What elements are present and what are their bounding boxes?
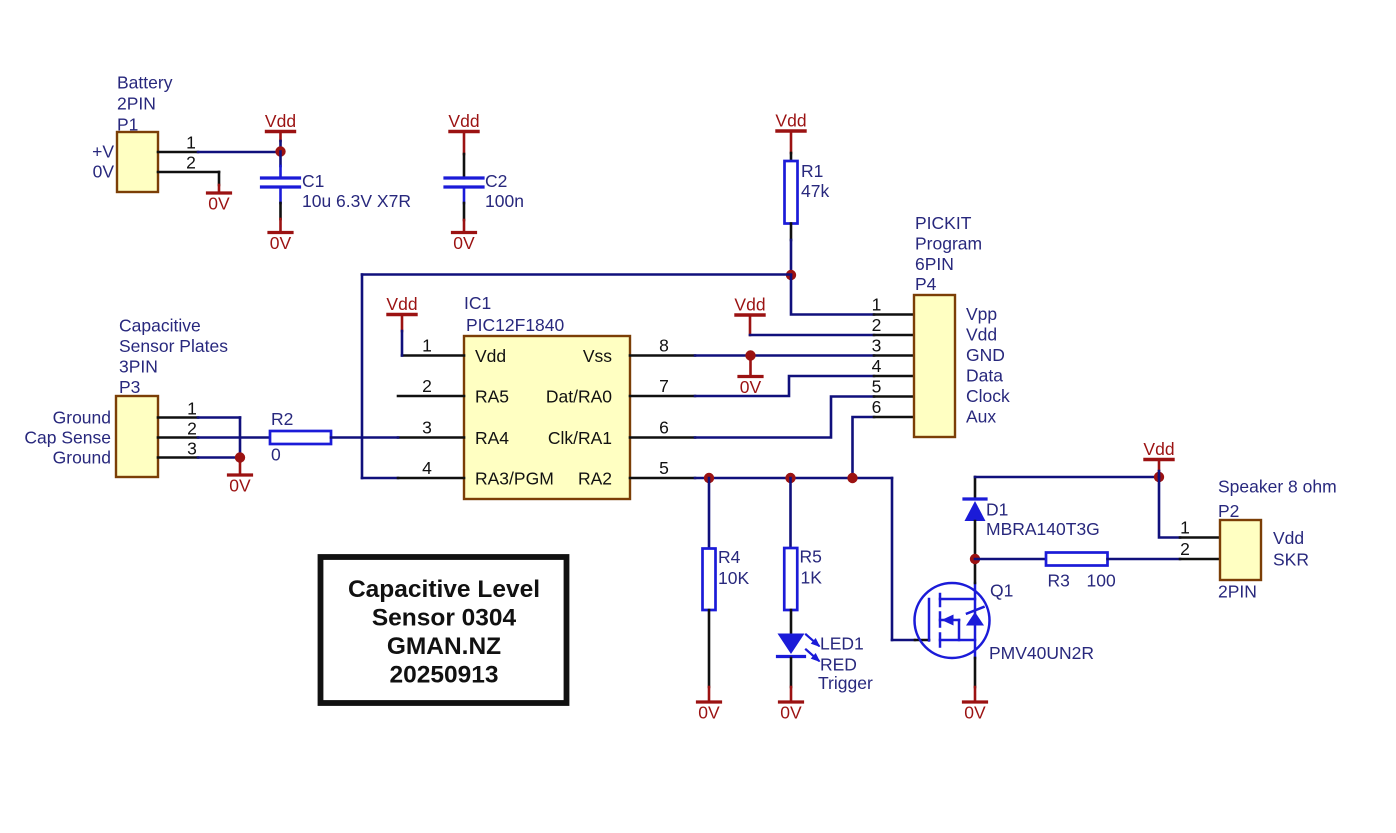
svg-text:1: 1 <box>186 133 196 153</box>
svg-text:2: 2 <box>187 419 197 439</box>
svg-text:Trigger: Trigger <box>818 673 873 693</box>
svg-text:Sensor Plates: Sensor Plates <box>119 336 228 356</box>
svg-text:P2: P2 <box>1218 501 1239 521</box>
svg-text:2PIN: 2PIN <box>1218 582 1257 602</box>
svg-text:0V: 0V <box>208 194 230 214</box>
svg-text:6PIN: 6PIN <box>915 254 954 274</box>
svg-text:PICKIT: PICKIT <box>915 213 972 233</box>
svg-text:Vpp: Vpp <box>966 304 997 324</box>
svg-text:RA2: RA2 <box>578 469 612 489</box>
svg-text:4: 4 <box>872 356 882 376</box>
svg-text:R4: R4 <box>718 547 741 567</box>
svg-text:3PIN: 3PIN <box>119 357 158 377</box>
svg-text:C2: C2 <box>485 171 507 191</box>
svg-text:LED1: LED1 <box>820 634 864 654</box>
svg-text:R2: R2 <box>271 409 293 429</box>
svg-text:Vdd: Vdd <box>475 346 506 366</box>
svg-text:D1: D1 <box>986 500 1008 520</box>
svg-text:3: 3 <box>872 336 882 356</box>
svg-text:Aux: Aux <box>966 407 996 427</box>
svg-text:2: 2 <box>422 376 432 396</box>
svg-text:100: 100 <box>1087 571 1116 591</box>
svg-text:Vdd: Vdd <box>966 325 997 345</box>
svg-text:10u 6.3V X7R: 10u 6.3V X7R <box>302 191 411 211</box>
svg-text:GMAN.NZ: GMAN.NZ <box>387 633 501 660</box>
svg-text:0V: 0V <box>740 377 762 397</box>
svg-text:Cap Sense: Cap Sense <box>24 428 111 448</box>
svg-text:47k: 47k <box>801 181 829 201</box>
svg-text:3: 3 <box>422 418 432 438</box>
svg-text:0V: 0V <box>270 233 292 253</box>
svg-text:Ground: Ground <box>53 448 111 468</box>
svg-text:20250913: 20250913 <box>389 662 498 689</box>
svg-text:2PIN: 2PIN <box>117 94 156 114</box>
svg-text:4: 4 <box>422 458 432 478</box>
svg-text:5: 5 <box>872 377 882 397</box>
svg-text:RA5: RA5 <box>475 387 509 407</box>
svg-text:MBRA140T3G: MBRA140T3G <box>986 519 1100 539</box>
svg-text:P3: P3 <box>119 377 140 397</box>
svg-text:PIC12F1840: PIC12F1840 <box>466 315 565 335</box>
svg-text:RA3/PGM: RA3/PGM <box>475 469 554 489</box>
svg-text:6: 6 <box>872 397 882 417</box>
svg-text:R1: R1 <box>801 161 823 181</box>
svg-text:2: 2 <box>186 153 196 173</box>
svg-text:Vdd: Vdd <box>734 295 765 315</box>
svg-text:2: 2 <box>1180 539 1190 559</box>
svg-text:8: 8 <box>659 336 669 356</box>
svg-text:SKR: SKR <box>1273 550 1309 570</box>
svg-text:1: 1 <box>422 336 432 356</box>
svg-text:1: 1 <box>1180 518 1190 538</box>
svg-text:Capacitive Level: Capacitive Level <box>348 576 540 603</box>
svg-text:0V: 0V <box>93 162 115 182</box>
svg-text:Vdd: Vdd <box>1273 528 1304 548</box>
svg-text:Vdd: Vdd <box>448 111 479 131</box>
svg-text:RA4: RA4 <box>475 428 509 448</box>
svg-text:+V: +V <box>92 142 114 162</box>
svg-text:Battery: Battery <box>117 73 173 93</box>
svg-text:0V: 0V <box>964 703 986 723</box>
svg-text:100n: 100n <box>485 191 524 211</box>
svg-text:1: 1 <box>187 399 197 419</box>
svg-text:5: 5 <box>659 458 669 478</box>
svg-text:RED: RED <box>820 655 857 675</box>
svg-text:Capacitive: Capacitive <box>119 316 201 336</box>
svg-text:Vdd: Vdd <box>386 294 417 314</box>
svg-text:10K: 10K <box>718 568 749 588</box>
svg-text:7: 7 <box>659 376 669 396</box>
svg-text:Vdd: Vdd <box>775 111 806 131</box>
svg-text:0V: 0V <box>698 703 720 723</box>
svg-text:0V: 0V <box>453 233 475 253</box>
svg-text:Ground: Ground <box>53 408 111 428</box>
svg-text:Dat/RA0: Dat/RA0 <box>546 387 612 407</box>
svg-text:Clock: Clock <box>966 386 1010 406</box>
svg-text:PMV40UN2R: PMV40UN2R <box>989 643 1094 663</box>
svg-text:0V: 0V <box>780 703 802 723</box>
svg-text:Data: Data <box>966 366 1003 386</box>
svg-text:6: 6 <box>659 418 669 438</box>
svg-text:3: 3 <box>187 439 197 459</box>
svg-text:IC1: IC1 <box>464 293 491 313</box>
svg-text:Program: Program <box>915 234 982 254</box>
svg-text:R3: R3 <box>1048 571 1070 591</box>
svg-text:Vdd: Vdd <box>265 111 296 131</box>
svg-text:Vdd: Vdd <box>1143 439 1174 459</box>
svg-text:P4: P4 <box>915 274 937 294</box>
svg-text:0V: 0V <box>229 476 251 496</box>
svg-text:Clk/RA1: Clk/RA1 <box>548 428 612 448</box>
svg-text:0: 0 <box>271 445 281 465</box>
svg-text:Vss: Vss <box>583 346 612 366</box>
svg-text:Q1: Q1 <box>990 581 1013 601</box>
svg-text:2: 2 <box>872 315 882 335</box>
svg-text:Sensor 0304: Sensor 0304 <box>372 605 517 632</box>
svg-text:1K: 1K <box>801 568 823 588</box>
svg-text:C1: C1 <box>302 171 324 191</box>
svg-text:Speaker 8 ohm: Speaker 8 ohm <box>1218 477 1337 497</box>
svg-text:GND: GND <box>966 345 1005 365</box>
svg-text:R5: R5 <box>800 547 822 567</box>
svg-text:1: 1 <box>872 295 882 315</box>
